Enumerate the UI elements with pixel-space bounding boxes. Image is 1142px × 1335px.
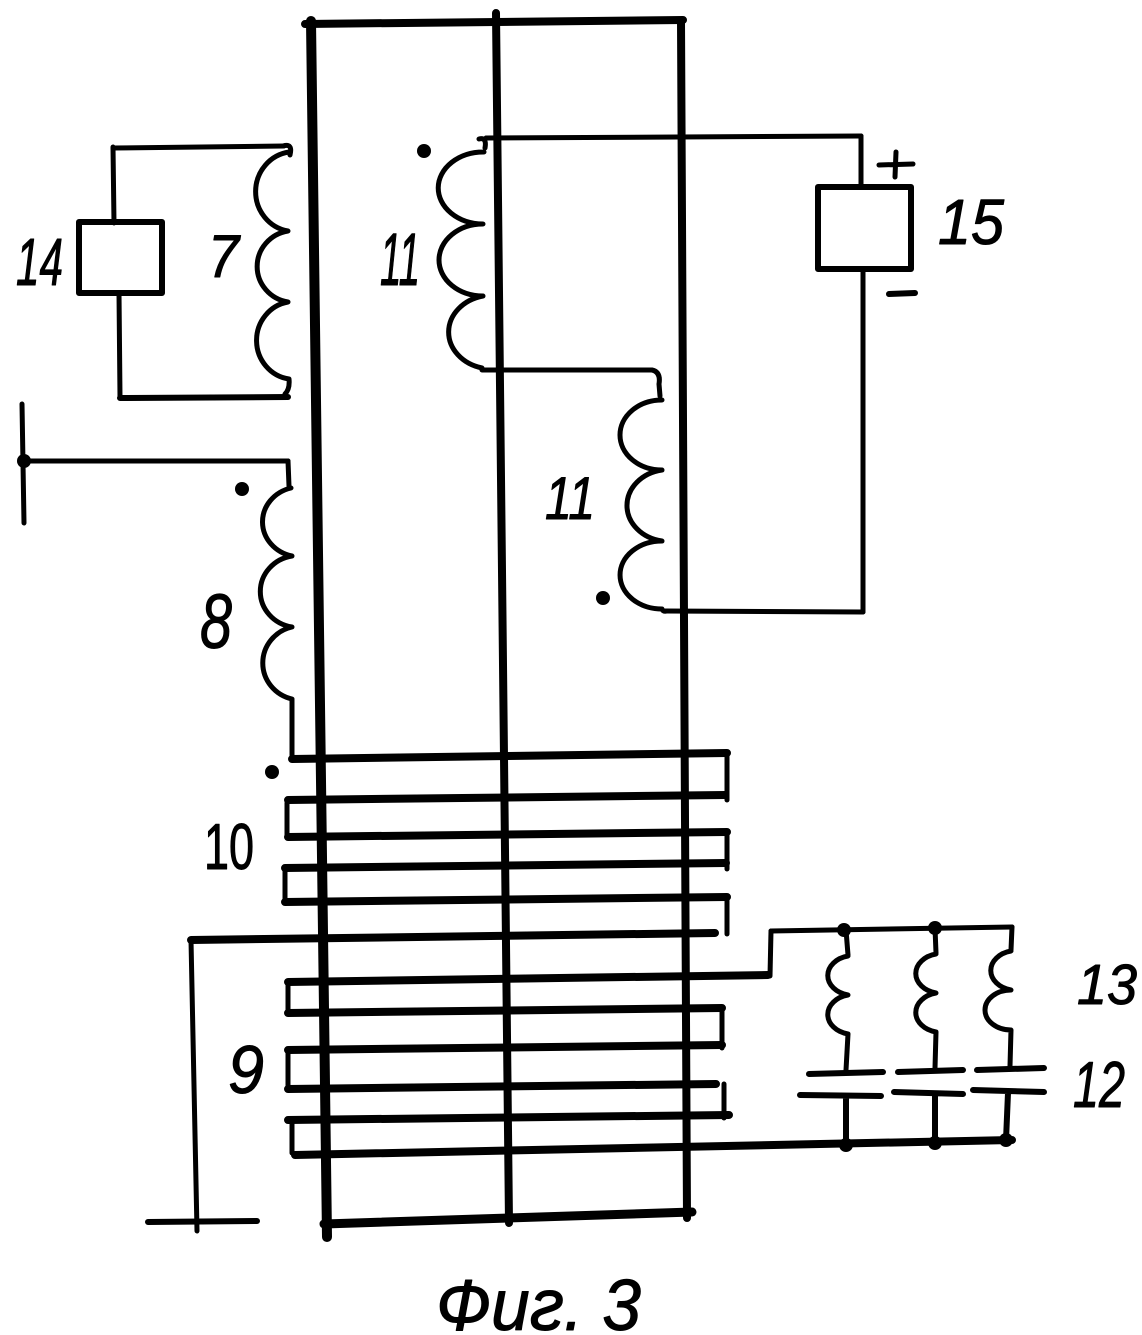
winding 10 right tick 2 — [725, 834, 730, 869]
winding 10 line 6 — [191, 933, 715, 940]
winding 9 line 5 — [288, 1115, 729, 1120]
inductor 13b — [916, 928, 936, 1068]
junction dot bus bottom 1 — [839, 1138, 853, 1152]
svg-text:8: 8 — [200, 579, 232, 665]
svg-text:13: 13 — [1077, 953, 1137, 1017]
winding 9 right hook up — [770, 931, 771, 976]
winding 10 right tick 1 — [725, 755, 730, 800]
winding 10 line 1 — [292, 753, 727, 759]
capacitor 12b — [894, 1070, 963, 1142]
winding 8 — [260, 488, 292, 758]
core left leg — [311, 21, 327, 1237]
svg-text:11: 11 — [380, 218, 420, 301]
core middle leg — [496, 13, 509, 1223]
winding 9 line 3 — [288, 1045, 722, 1050]
wire between windings 11 — [482, 370, 660, 396]
wire left vertical to block 14 — [113, 147, 114, 223]
wire top of winding 11 upper to battery — [486, 136, 861, 138]
winding 9 line 4 — [288, 1084, 716, 1089]
polarity dot winding 10 — [265, 765, 279, 779]
winding 9 left tick 1 — [286, 984, 291, 1012]
wire top of winding 7 loop — [113, 146, 284, 148]
svg-text:12: 12 — [1073, 1048, 1125, 1121]
wire left lower vertical — [191, 940, 197, 1231]
svg-text:15: 15 — [938, 186, 1004, 258]
wire battery bottom — [861, 269, 866, 612]
plus sign — [879, 152, 913, 177]
polarity dot winding 8 — [235, 482, 249, 496]
winding 7 — [256, 145, 291, 394]
winding 11 upper — [438, 139, 485, 368]
winding 9 line 2 — [288, 1008, 722, 1013]
block 14 — [79, 222, 162, 293]
winding 10 line 4 — [285, 863, 726, 868]
core top yoke — [305, 20, 683, 24]
svg-text:10: 10 — [204, 810, 254, 883]
junction dot upper left — [17, 454, 31, 468]
svg-text:11: 11 — [545, 465, 595, 532]
wire corner into winding 8 — [288, 461, 289, 486]
winding 9 right tick 2 — [722, 1084, 727, 1118]
minus sign — [889, 293, 915, 294]
capacitor 12c — [973, 1068, 1044, 1140]
winding 10 left tick 2 — [283, 870, 288, 900]
svg-text:Фиг. 3: Фиг. 3 — [436, 1266, 641, 1335]
winding 9 left tick 3 — [290, 1122, 295, 1153]
junction dot bus top 2 — [928, 921, 942, 935]
wire battery top — [859, 136, 864, 187]
junction dot bus bottom 3 — [999, 1133, 1013, 1147]
wire bottom of winding 11 lower to battery — [665, 611, 863, 612]
winding 11 lower — [620, 400, 667, 611]
polarity dot winding 11 lower — [596, 591, 610, 605]
terminal upper left — [22, 404, 24, 523]
terminal lower left — [148, 1221, 257, 1222]
inductor 13a — [828, 930, 848, 1070]
wire bottom of winding 7 loop — [120, 397, 288, 398]
top bus of filter network — [771, 927, 1012, 931]
winding 10 right tick 3 — [725, 899, 730, 934]
wire from block 14 bottom — [119, 293, 120, 397]
winding 10 line 2 — [288, 795, 725, 800]
svg-text:9: 9 — [228, 1032, 264, 1108]
winding 9 right tick 1 — [720, 1009, 725, 1048]
svg-text:7: 7 — [208, 223, 241, 290]
wire terminal to winding 8 — [24, 459, 288, 464]
polarity dot winding 11 upper — [417, 144, 431, 158]
winding 9 line 6 (to bottom bus) — [295, 1140, 1012, 1155]
winding 10 left tick 1 — [285, 803, 290, 835]
winding 10 line 3 — [288, 832, 727, 837]
capacitor 12a — [800, 1072, 883, 1144]
battery block 15 — [818, 187, 911, 269]
junction dot bus bottom 2 — [928, 1136, 942, 1150]
winding 10 line 5 — [285, 897, 727, 902]
winding 9 left tick 2 — [286, 1052, 291, 1088]
svg-text:14: 14 — [16, 225, 63, 300]
core bottom yoke — [324, 1212, 692, 1224]
core right leg — [681, 21, 687, 1218]
winding 9 line 1 — [288, 975, 768, 982]
inductor 13c — [985, 927, 1012, 1066]
junction dot bus top 1 — [837, 923, 851, 937]
